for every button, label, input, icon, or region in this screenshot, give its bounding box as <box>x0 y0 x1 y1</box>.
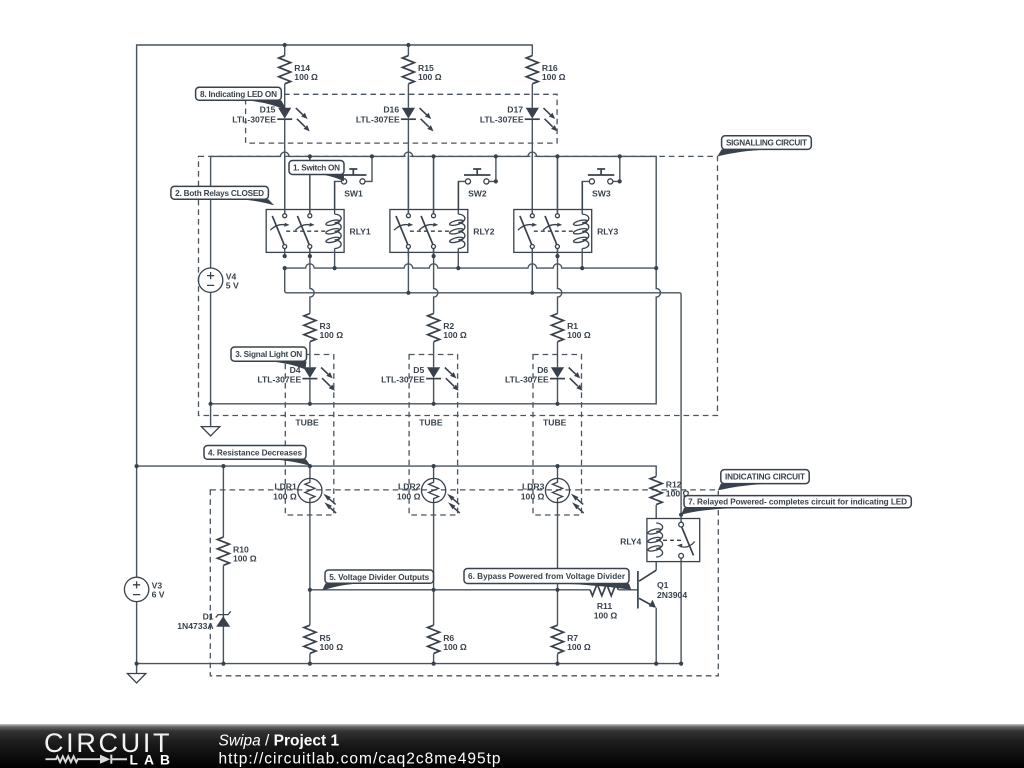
svg-text:100 Ω: 100 Ω <box>397 491 421 501</box>
svg-text:D6: D6 <box>537 365 548 375</box>
svg-text:2. Both Relays CLOSED: 2. Both Relays CLOSED <box>175 189 264 198</box>
svg-text:Swipa / Project 1: Swipa / Project 1 <box>219 733 340 750</box>
wire RLY2 pole2 down hop rail B to R2 <box>434 249 438 314</box>
resistor R15 <box>402 56 441 84</box>
svg-text:5 V: 5 V <box>226 280 239 290</box>
svg-text:TUBE: TUBE <box>543 417 567 427</box>
LED D6 <box>505 365 583 391</box>
svg-text:100 Ω: 100 Ω <box>233 554 257 564</box>
node dots ground rail <box>209 402 560 406</box>
wire RLY4 switch to bottom rail <box>680 558 682 663</box>
svg-text:100 Ω: 100 Ω <box>521 491 545 501</box>
LED D16 <box>356 105 434 132</box>
LDR2 <box>397 478 460 513</box>
wire RLY4 coil to Q1 collector <box>655 562 657 571</box>
svg-text:D16: D16 <box>383 105 399 115</box>
svg-text:LTL-307EE: LTL-307EE <box>257 374 301 384</box>
wire R14 top lead <box>284 45 286 56</box>
wire LDR1 column <box>309 466 311 590</box>
svg-text:LDR1: LDR1 <box>274 482 297 492</box>
wire R10 column <box>222 466 224 663</box>
wire RLY2 pole1 down to rail B <box>407 249 409 293</box>
svg-text:6 V: 6 V <box>152 590 165 600</box>
svg-text:INDICATING CIRCUIT: INDICATING CIRCUIT <box>725 472 805 481</box>
svg-text:D1: D1 <box>203 611 214 621</box>
wire R6 column <box>433 590 435 664</box>
wire V3 bottom to ground <box>136 602 138 674</box>
svg-text:100 Ω: 100 Ω <box>443 642 467 652</box>
svg-text:1. Switch ON: 1. Switch ON <box>293 163 340 172</box>
wire LED column 2 <box>407 84 409 214</box>
svg-text:D5: D5 <box>413 365 424 375</box>
callout 3. Signal Light ON <box>231 347 307 370</box>
wire rail B from RLY1 pole1 to RLY4 switch <box>285 268 681 522</box>
callout 1. Switch ON <box>289 161 344 182</box>
resistor R3 <box>304 314 343 342</box>
svg-text:LTL-307EE: LTL-307EE <box>232 115 276 125</box>
resistor R6 <box>428 625 467 653</box>
node dots bottom rail <box>135 662 684 666</box>
resistor R2 <box>428 314 467 342</box>
callout 8. Indicating LED ON <box>196 87 287 110</box>
svg-text:5. Voltage Divider Outputs: 5. Voltage Divider Outputs <box>329 573 429 582</box>
transistor Q1 <box>638 570 687 608</box>
resistor R11 (horizontal) <box>590 584 618 621</box>
svg-text:3. Signal Light ON: 3. Signal Light ON <box>235 350 302 359</box>
wire divider output rail <box>310 589 638 591</box>
wire R3 to D4 to ground rail <box>309 342 311 404</box>
svg-text:Q1: Q1 <box>657 580 669 590</box>
svg-text:LDR3: LDR3 <box>522 482 545 492</box>
svg-text:100 Ω: 100 Ω <box>320 330 344 340</box>
resistor R12 <box>650 476 689 504</box>
resistor R16 <box>526 56 565 84</box>
node dots under relays <box>283 254 560 258</box>
callout 4. Resistance Decreases <box>204 446 311 467</box>
svg-text:RLY4: RLY4 <box>620 536 641 546</box>
node dots rail A <box>283 266 659 270</box>
node dots sense rail <box>135 464 560 468</box>
node dots divider rail <box>308 588 560 592</box>
callout SIGNALLING CIRCUIT <box>717 136 811 157</box>
wire LED column 3 <box>531 84 533 214</box>
svg-text:TUBE: TUBE <box>419 417 443 427</box>
voltage source V4 <box>198 268 239 292</box>
relay RLY2 <box>390 156 495 268</box>
svg-text:100 Ω: 100 Ω <box>567 642 591 652</box>
svg-text:100 Ω: 100 Ω <box>542 72 566 82</box>
ground under V3 <box>127 674 145 683</box>
wire RLY1 pole2 down hop rail B to R3 <box>310 249 314 314</box>
svg-text:100 Ω: 100 Ω <box>320 642 344 652</box>
wire R2 to D5 to ground rail <box>433 342 435 404</box>
wire V4 top lead <box>210 156 212 268</box>
svg-text:4. Resistance Decreases: 4. Resistance Decreases <box>208 448 302 457</box>
wire LED column 1 through bus to relay <box>284 84 286 214</box>
wire R5 column <box>309 590 311 664</box>
svg-text:100 Ω: 100 Ω <box>273 491 297 501</box>
svg-text:LTL-307EE: LTL-307EE <box>381 374 425 384</box>
node dots signalling bus <box>308 154 622 158</box>
dashed box TUBE 1 <box>285 355 334 516</box>
resistor R1 <box>552 314 591 342</box>
svg-text:D17: D17 <box>507 105 523 115</box>
wire V4 bottom lead to ground <box>210 293 212 427</box>
wire sense rail y466 from left rail to R12 <box>137 466 657 476</box>
node dot RLY4 input <box>679 513 683 517</box>
switch SW3 <box>582 156 619 209</box>
resistor R5 <box>304 625 343 653</box>
svg-text:100 Ω: 100 Ω <box>294 72 318 82</box>
svg-text:D15: D15 <box>260 105 276 115</box>
callout 7. Relayed Powered- completes circuit for indicating LED <box>681 496 911 515</box>
wire RLY3 pole1 down to rail B <box>531 249 533 293</box>
callout INDICATING CIRCUIT <box>718 470 809 491</box>
svg-text:SW2: SW2 <box>468 189 487 199</box>
svg-text:LTL-307EE: LTL-307EE <box>480 115 524 125</box>
relay RLY4 <box>620 519 700 562</box>
callout 2. Both Relays CLOSED <box>171 186 274 205</box>
LED D5 <box>381 365 459 391</box>
svg-text:SW1: SW1 <box>344 189 363 199</box>
node dots switch bends <box>494 179 622 183</box>
wire LDR2 column <box>433 466 435 590</box>
switch SW2 <box>459 156 496 209</box>
wire R15 top lead <box>407 45 409 56</box>
svg-text:SIGNALLING CIRCUIT: SIGNALLING CIRCUIT <box>726 138 807 147</box>
svg-text:100 Ω: 100 Ω <box>567 330 591 340</box>
svg-text:100 Ω: 100 Ω <box>594 611 618 621</box>
dashed box TUBE 2 <box>409 355 458 516</box>
callout 5. Voltage Divider Outputs <box>322 570 434 591</box>
voltage source V3 <box>124 577 164 601</box>
dashed box INDICATING CIRCUIT <box>210 490 718 676</box>
relay RLY3 <box>514 156 619 268</box>
ground under V4 <box>201 427 219 436</box>
wire R7 column <box>557 590 559 664</box>
svg-text:7. Relayed Powered- completes: 7. Relayed Powered- completes circuit fo… <box>688 498 907 507</box>
svg-text:1N4733A: 1N4733A <box>177 621 213 631</box>
svg-text:2N3904: 2N3904 <box>657 590 687 600</box>
zener diode D1 <box>177 611 230 631</box>
wire signalling bus with hops over LED columns, down right side, ground rail back to V4 <box>211 152 661 404</box>
wire top rail from V3 left column to R16 <box>137 45 533 577</box>
svg-text:8. Indicating LED ON: 8. Indicating LED ON <box>200 90 277 99</box>
svg-text:RLY3: RLY3 <box>597 227 618 237</box>
svg-text:LTL-307EE: LTL-307EE <box>505 374 549 384</box>
resistor R7 <box>552 625 591 653</box>
svg-text:100 Ω: 100 Ω <box>443 330 467 340</box>
dashed box TUBE 3 <box>533 355 582 516</box>
wire RLY3 pole2 down hop rail B to R1 <box>558 249 562 314</box>
resistor R10 <box>217 537 256 565</box>
svg-text:RLY1: RLY1 <box>350 227 371 237</box>
LDR3 <box>521 478 584 513</box>
wire RLY2 pole2 feed from bus <box>433 156 435 213</box>
wire R12 to RLY4 coil <box>655 505 657 519</box>
LED D17 <box>480 105 558 132</box>
svg-text:LTL-307EE: LTL-307EE <box>356 115 400 125</box>
resistor R14 <box>279 56 318 84</box>
svg-text:6. Bypass Powered from Voltage: 6. Bypass Powered from Voltage Divider <box>468 572 626 581</box>
callout 6. Bypass Powered from Voltage Divider <box>464 569 631 590</box>
svg-text:LDR2: LDR2 <box>398 482 421 492</box>
wire R1 to D6 to ground rail <box>557 342 559 404</box>
wire LDR3 column <box>557 466 559 590</box>
node dots rail B <box>406 291 534 295</box>
switch SW1 <box>335 156 372 209</box>
wire RLY3 pole2 feed from bus <box>557 156 559 213</box>
svg-text:100 Ω: 100 Ω <box>418 72 442 82</box>
relay RLY1 <box>266 156 371 268</box>
svg-text:LAB: LAB <box>130 752 174 767</box>
wire Q1 emitter to bottom rail <box>655 608 657 664</box>
wire bottom rail <box>137 663 682 665</box>
node dots top rail <box>283 43 411 47</box>
wire RLY1 pole2 feed from bus <box>309 156 311 213</box>
dashed box SIGNALLING CIRCUIT <box>199 156 718 415</box>
svg-text:RLY2: RLY2 <box>473 227 494 237</box>
wire rail A (coil return) with hops <box>285 264 657 268</box>
svg-text:http://circuitlab.com/caq2c8me: http://circuitlab.com/caq2c8me495tp <box>219 751 501 768</box>
dashed box indicating LEDs row <box>246 94 557 143</box>
svg-text:SW3: SW3 <box>592 189 611 199</box>
svg-text:TUBE: TUBE <box>295 417 319 427</box>
LED D15 <box>232 105 310 132</box>
LDR1 <box>273 478 336 513</box>
LED D4 <box>257 365 335 391</box>
